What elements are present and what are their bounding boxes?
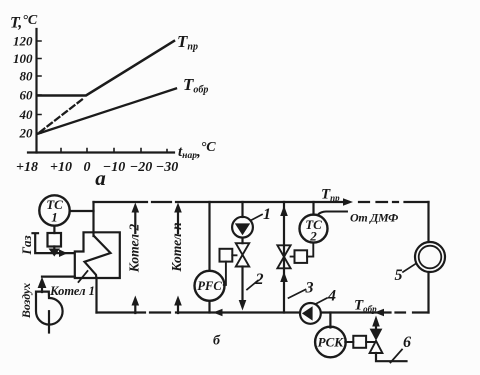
svg-text:2: 2 (309, 229, 317, 244)
svg-text:120: 120 (13, 34, 33, 49)
svg-text:60: 60 (20, 88, 34, 103)
svg-text:tнар,°C: tнар,°C (178, 140, 216, 161)
svg-text:−20: −20 (130, 160, 152, 175)
svg-text:Котел n: Котел n (169, 222, 184, 272)
svg-text:Tобр: Tобр (354, 298, 377, 315)
svg-text:4: 4 (327, 288, 336, 305)
svg-text:0: 0 (84, 160, 91, 175)
svg-text:−30: −30 (156, 160, 178, 175)
svg-text:T,°C: T,°C (10, 13, 38, 32)
svg-text:+18: +18 (16, 160, 38, 175)
svg-text:Tпр: Tпр (321, 187, 340, 204)
svg-text:1: 1 (263, 206, 271, 223)
svg-text:б: б (213, 334, 221, 349)
svg-text:Котел 1: Котел 1 (49, 284, 95, 298)
svg-text:80: 80 (20, 69, 34, 84)
svg-text:5: 5 (395, 267, 403, 284)
svg-text:40: 40 (19, 107, 34, 122)
svg-text:20: 20 (19, 126, 34, 141)
svg-text:Tпр: Tпр (177, 32, 198, 53)
svg-text:а: а (95, 166, 106, 190)
svg-text:От ДМФ: От ДМФ (350, 211, 398, 225)
svg-text:Котел 2: Котел 2 (127, 224, 142, 274)
svg-text:Воздух: Воздух (19, 283, 33, 319)
svg-text:3: 3 (305, 280, 314, 297)
svg-text:Tобр: Tобр (183, 75, 208, 96)
svg-text:РСК: РСК (318, 335, 345, 350)
svg-text:PFC: PFC (197, 279, 222, 293)
svg-text:100: 100 (13, 51, 33, 66)
svg-text:6: 6 (403, 334, 411, 351)
svg-text:1: 1 (51, 210, 58, 225)
svg-text:Газ: Газ (19, 235, 34, 255)
svg-text:−10: −10 (103, 160, 125, 175)
svg-text:+10: +10 (50, 160, 72, 175)
svg-text:2: 2 (255, 271, 264, 288)
